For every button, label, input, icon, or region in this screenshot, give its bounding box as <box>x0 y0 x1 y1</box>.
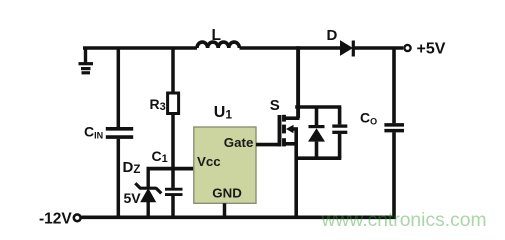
source lead <box>285 142 298 146</box>
svg-text:Vcc: Vcc <box>197 154 221 169</box>
svg-text:+5V: +5V <box>417 41 446 58</box>
op-amp U1 (controller box) <box>194 127 256 203</box>
capacitor C_O <box>384 125 404 131</box>
wire C_O bottom <box>392 132 396 217</box>
svg-text:D: D <box>327 27 338 44</box>
svg-text:www.cntronics.com: www.cntronics.com <box>321 210 487 231</box>
svg-text:U1: U1 <box>214 104 233 122</box>
channel dashes <box>282 115 286 122</box>
capacitor C_IN <box>106 129 133 137</box>
resistor R3 <box>168 93 179 114</box>
wire Vcc node (zener to U1) <box>147 167 194 171</box>
wire drain from rail <box>296 46 300 118</box>
svg-text:S: S <box>270 97 280 114</box>
svg-text:-12V: -12V <box>39 211 72 228</box>
wire R3 top <box>171 48 175 93</box>
diode (freewheel, in pair) <box>308 107 325 158</box>
wire bottom rail <box>82 215 396 219</box>
inductor L <box>197 42 239 48</box>
svg-text:L: L <box>212 27 221 44</box>
wire top rail right segment <box>353 46 403 50</box>
wire gate <box>256 143 281 147</box>
svg-text:Gate: Gate <box>224 135 254 150</box>
wire pair bottom bus <box>295 156 341 160</box>
wire top rail middle segment <box>240 46 342 50</box>
terminal -12V <box>74 214 81 221</box>
wire C_IN top <box>117 48 121 127</box>
wire pair top bus <box>295 105 341 109</box>
wire C_IN bottom <box>117 139 121 217</box>
transistor S (MOSFET) <box>280 115 300 147</box>
zener diode DZ <box>135 167 161 217</box>
capacitor C1 <box>165 189 183 194</box>
svg-text:5V: 5V <box>124 190 142 206</box>
gate plate <box>278 115 282 146</box>
wire R3 bottom to C1 <box>171 114 175 188</box>
wire C1 bottom <box>171 196 175 217</box>
capacitor (snubber, in pair) <box>332 107 347 158</box>
wire C_O top <box>392 48 396 123</box>
wire source down <box>294 129 298 217</box>
wire U1 GND to rail <box>223 203 227 217</box>
wire top rail left segment <box>83 46 197 50</box>
svg-text:GND: GND <box>212 185 242 200</box>
terminal +5V <box>404 45 410 51</box>
diode D <box>341 41 354 57</box>
body arrow <box>286 125 294 133</box>
ground <box>79 48 94 73</box>
drain lead <box>285 116 300 120</box>
